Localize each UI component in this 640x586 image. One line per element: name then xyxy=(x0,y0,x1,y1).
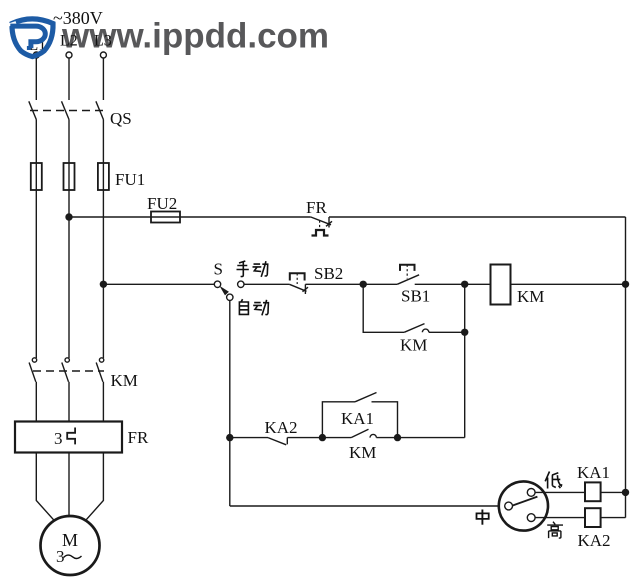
svg-text:L3: L3 xyxy=(94,33,112,50)
wire S to SB2 xyxy=(244,283,290,285)
svg-text:KA1: KA1 xyxy=(577,463,610,482)
wire auto tap to KA2 xyxy=(230,437,268,439)
wire bottom to rotary switch xyxy=(230,505,505,507)
wire L3 KM to FR xyxy=(102,382,104,422)
wire L3 QS to FU1 xyxy=(102,120,104,191)
junction dot SB2-SB1 branch xyxy=(360,281,367,288)
svg-text:3: 3 xyxy=(54,429,63,448)
wire KA2 to KM contact xyxy=(287,437,351,439)
contactor KM main contact 1 xyxy=(29,358,37,382)
junction dot SB1 right xyxy=(461,281,468,288)
coil KM xyxy=(491,265,511,305)
junction dot self-hold right xyxy=(461,329,468,336)
label 手动 xyxy=(237,261,268,277)
svg-text:SB1: SB1 xyxy=(401,287,430,306)
wire SB2 to SB1 xyxy=(305,283,397,285)
svg-text:FU2: FU2 xyxy=(147,194,177,213)
label 自动 xyxy=(239,299,268,315)
wire L3 FU1 to KM xyxy=(102,190,104,358)
svg-text:L2: L2 xyxy=(60,33,78,50)
fuse FU2 xyxy=(151,212,180,223)
coil KA1 xyxy=(585,482,601,501)
wire L1 FU1 to KM xyxy=(35,190,37,358)
svg-text:~380V: ~380V xyxy=(53,8,103,28)
contact KA1 NO branch xyxy=(322,393,397,438)
logo shield xyxy=(4,19,53,57)
svg-text:KM: KM xyxy=(400,336,427,355)
junction dot right rail top xyxy=(622,281,629,288)
svg-text:SB2: SB2 xyxy=(314,264,343,283)
terminal L2 xyxy=(66,52,72,58)
rotary switch SA xyxy=(499,481,548,530)
wire SB1 to KM coil xyxy=(415,283,491,285)
svg-text:3: 3 xyxy=(56,547,65,566)
svg-text:QS: QS xyxy=(110,109,132,128)
wire L3 FR to motor xyxy=(81,453,104,526)
contact KM auxiliary NO xyxy=(404,324,429,333)
terminal L3 xyxy=(100,52,106,58)
thermal relay FR NC contact xyxy=(311,217,332,236)
label 中 xyxy=(477,510,489,525)
wire L1 FR to motor xyxy=(36,453,59,526)
svg-text:KM: KM xyxy=(349,443,376,462)
wire FR to right rail xyxy=(329,216,626,218)
svg-text:S: S xyxy=(214,260,223,279)
thermal relay FR heater box xyxy=(15,422,122,453)
selector switch S xyxy=(214,281,244,300)
wire KM aux to vertical xyxy=(429,331,465,333)
switch QS pole 2 xyxy=(62,101,70,119)
junction dot L2 control tap xyxy=(65,213,72,220)
pushbutton SB2 NC xyxy=(289,273,308,294)
svg-text:KA1: KA1 xyxy=(341,409,374,428)
junction dot L3 control tap xyxy=(100,281,107,288)
wire rotary low to KA1 coil xyxy=(535,491,585,493)
wire vertical SB1-right down xyxy=(464,284,466,437)
thermal relay FR heater symbol xyxy=(67,428,75,445)
contactor KM link dashed xyxy=(33,370,104,372)
wire L1 vertical top xyxy=(35,58,37,100)
pushbutton SB1 NO xyxy=(397,265,419,285)
wire KM bottom to corner xyxy=(376,437,464,439)
terminal L1 xyxy=(33,52,39,58)
wire L1 KM to FR xyxy=(35,382,37,422)
junction dot KA1 branch right xyxy=(394,434,401,441)
contact KM NO bottom xyxy=(351,429,376,437)
wire L2 FR to motor xyxy=(68,453,70,517)
svg-text:FR: FR xyxy=(128,428,149,447)
coil KA2 xyxy=(585,508,601,527)
wire L1 QS to FU1 xyxy=(35,120,37,191)
svg-text:KM: KM xyxy=(517,287,544,306)
svg-text:FR: FR xyxy=(306,198,327,217)
wire KA1 coil to rail xyxy=(601,491,626,493)
fuse FU1 element 1 xyxy=(31,163,42,190)
svg-text:FU1: FU1 xyxy=(115,170,145,189)
fuse FU1 element 3 xyxy=(98,163,109,190)
svg-text:KM: KM xyxy=(111,371,138,390)
junction dot rail KA1 xyxy=(622,489,629,496)
wire right rail vertical xyxy=(625,217,627,518)
wire control top from L2 xyxy=(69,216,311,218)
motor M circle xyxy=(41,516,100,575)
wire rotary high to KA2 coil xyxy=(535,517,585,519)
wire L3 vertical top xyxy=(102,58,104,100)
label 低 xyxy=(545,472,562,489)
wire L2 FU1 to KM xyxy=(68,190,70,358)
wire self-hold branch left xyxy=(363,284,404,332)
wire L2 KM to FR xyxy=(68,382,70,422)
junction dot auto line xyxy=(226,434,233,441)
contactor KM main contact 3 xyxy=(96,358,104,382)
wire KM coil to right rail xyxy=(511,283,626,285)
contactor KM main contact 2 xyxy=(62,358,70,382)
fuse FU1 element 2 xyxy=(64,163,75,190)
wire auto line vertical xyxy=(229,300,231,506)
label 高 xyxy=(547,522,563,538)
contact KA2 NC xyxy=(268,438,287,445)
switch QS link dashed xyxy=(30,110,106,112)
junction dot KA1 branch left xyxy=(319,434,326,441)
wire L3 tap to S xyxy=(103,283,214,285)
svg-text:KA2: KA2 xyxy=(265,418,298,437)
svg-text:KA2: KA2 xyxy=(578,531,611,550)
switch QS pole 3 xyxy=(96,101,104,119)
wire L2 vertical top xyxy=(68,58,70,100)
wire L2 QS to FU1 xyxy=(68,120,70,191)
switch QS pole 1 xyxy=(29,101,37,119)
wire KA2 coil to rail xyxy=(601,517,626,519)
